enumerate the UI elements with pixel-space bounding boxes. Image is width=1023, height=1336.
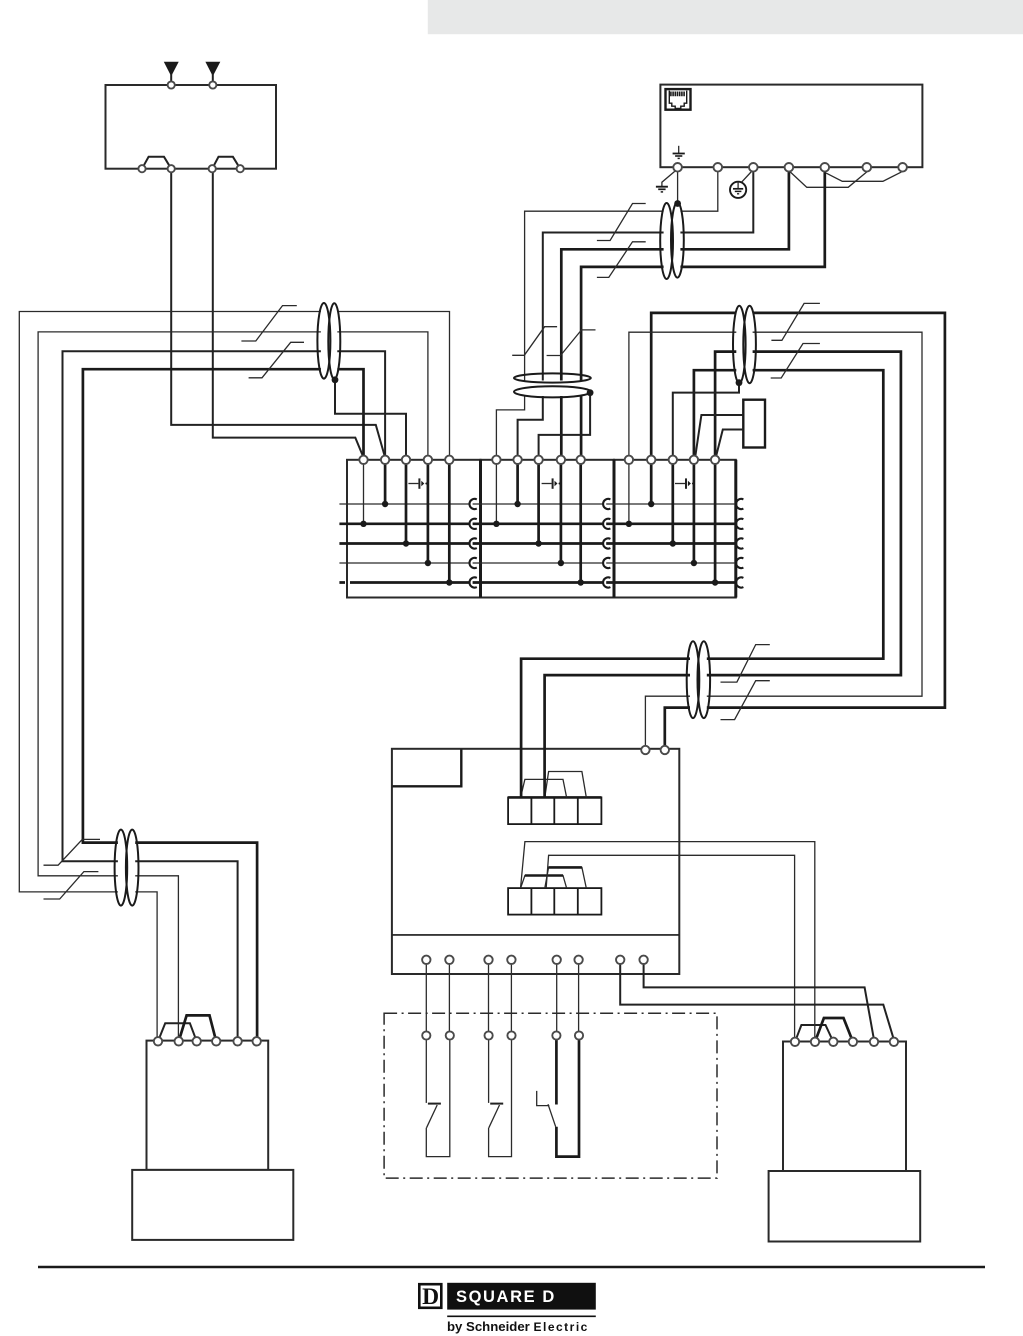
connector arcs box2 right edge [603,499,610,588]
wire controller t1 to shield bond dot [677,167,679,203]
wire right loop W1: module3 t2 to lower toroid H4 [651,313,945,747]
terminal strip divider [393,934,679,936]
shield count slash S11 [44,839,101,865]
wire central out7 to remote-right t6 [620,964,894,1040]
wire central out5 to switch3 [556,964,558,1032]
bus line L2 [339,522,735,525]
module3 terminals [625,456,633,464]
connector arcs box1 right edge [469,499,476,588]
ferrite bead FB3 (right middle) [733,306,756,383]
switch 1 [426,1040,450,1157]
wire left loop D: module1 t1 to remote-left t6 [83,369,364,1039]
svg-text:SQUARE D: SQUARE D [456,1288,556,1306]
shield count slash S12 [44,872,99,899]
jumper t1-t3 [795,1025,833,1042]
wire antenna box t3 to module1 t1 [213,169,364,458]
central box top terminals [641,746,649,754]
shield count slash S7 [771,303,820,340]
termination plug rectangle [743,400,765,448]
customer wiring terminals [422,1031,430,1039]
central box bottom terminals [422,956,430,964]
jumper link terminals 3-4 [212,157,240,169]
ground symbol inside box [673,146,685,159]
wire termination plug pin1 to module3 t4 [695,415,743,457]
earth symbol [656,186,668,188]
wire central out1 to switch1 [425,964,427,1032]
shield count slash S5 [512,327,557,356]
shield count slash S1 [241,306,296,341]
wire antenna box t2 to module1 t2 [171,169,385,458]
lower plug 1 [521,876,567,889]
wire controller t5 to module2 t5 [581,167,825,459]
dashed customer-wiring box [384,1013,717,1178]
wire shield bond V3 to module3 t3 [673,383,739,460]
bus line L4 [339,562,735,564]
wire central out2 to switch1 return [448,964,450,1032]
wire controller t2 to module2 t1 [496,167,717,459]
jumper t2-t4 (bold) [179,1015,217,1041]
antenna box top terminals [168,81,175,88]
wire termination plug pin2 to module3 t5 [716,430,743,458]
box1 electrode symbol [408,478,427,488]
ferrite bead FB1 (below controller) [660,202,684,279]
relay module box 1 [347,460,481,598]
remote-left terminals [154,1037,162,1045]
lower connector strip [508,867,601,914]
wire shield bond V2 to module1 t3 [335,380,406,459]
wire central out8 to remote-right t5 [644,964,874,1040]
module divider 1-2 [479,460,482,598]
box1 terminal drop wires [363,460,365,524]
wire right loop W4: module3 t4 to lower toroid H1 [521,370,883,797]
controller box (top right) [660,85,922,168]
box3 electrode symbol [675,478,694,488]
ferrite bead FB2 (left middle) [317,303,340,379]
wire central lower plug2 to remote-right t1 [546,855,794,1040]
footer rule [38,1266,985,1269]
node dots module3 buses [648,501,654,507]
node shield bond dot FB1 [674,200,681,207]
svg-text:D: D [422,1284,439,1310]
wire right loop W2: module3 t1 to lower toroid H3 [629,332,922,746]
display notch [393,750,462,787]
relay module box 2 [481,460,615,598]
wire central out3 to switch2 [488,964,490,1032]
antenna 1 [165,62,178,75]
ferrite bead FB6 (horizontal, above module2) [514,373,591,397]
box2 terminal drop wires [495,460,497,524]
box2 electrode symbol [542,478,561,488]
upper plug 1 [521,779,567,797]
antenna module box (top left) [106,62,277,169]
lower plug 2 [545,867,587,888]
wire left loop C: module1 t2 to remote-left t5 [63,351,386,1039]
node shield bond dot FB6 [587,389,594,396]
module divider 2-3 [613,460,616,598]
RJ45 jack icon [666,89,691,110]
wire right loop W3: module3 t5 to lower toroid H2 [545,352,901,798]
node dots module1 buses [382,501,388,507]
box3 terminal drop wires [628,460,630,524]
wire central out6 to switch3 return [578,964,580,1032]
controller terminals [673,163,682,172]
jumper t1-t3 [158,1023,197,1041]
wire left loop B: module1 t4 to remote-left t2 [38,332,428,1040]
earth lead from controller t3 to circled earth [730,172,752,198]
remote-right terminals [791,1038,799,1046]
bus line L3 [339,542,735,545]
shield count slash S9 [721,645,770,683]
Square D logo emblem [419,1284,441,1310]
node shield bond dot FB3 [736,379,743,386]
upper plug 2 [545,772,587,798]
right pedestal [769,1171,921,1242]
bus line L1 [339,503,735,505]
relay module box 3 [614,460,736,598]
remote device left [132,1015,293,1240]
module2 terminals [492,456,500,464]
shield count slash S3 [597,204,646,241]
svg-text:by Schneider Electric: by Schneider Electric [447,1319,589,1334]
controller jumper t4-t6 [790,172,867,187]
switch 2 [489,1040,512,1157]
left pedestal [132,1170,293,1240]
shield count slash S4 [597,242,646,278]
upper connector strip [508,772,601,825]
shield count slash S8 [771,344,820,379]
module1 terminals [359,456,367,464]
bus line L5 [339,581,735,584]
node shield bond dot FB2 [332,376,339,383]
circled earth symbol [730,182,746,198]
central controller box [392,749,679,974]
shield count slash S2 [249,342,304,378]
node dots module2 buses [514,501,520,507]
wire controller t3 to module2 t2 [518,167,754,459]
wire central lower plug1 to remote-right t2 [521,842,815,1040]
shield count slash S10 [721,681,770,720]
jumper link terminals 1-2 [142,157,171,169]
ferrite bead FB5 (bottom left) [115,830,139,906]
jumper t2-t4 (bold) [815,1018,853,1042]
module3 right edge [734,460,737,598]
wire controller t4 to module2 t4 [561,167,789,459]
controller jumper t5-t7 [826,172,901,181]
header gray bar [428,0,1023,34]
wire shield bond HT to module2 t3 [539,393,591,459]
shield count slash S6 [547,330,596,356]
ferrite bead FB4 (lower middle) [687,641,710,718]
wire central out4 to switch2 return [510,964,512,1032]
remote device right [769,1018,921,1242]
switch 3 (bold NC) [537,1040,579,1157]
earth lead from controller t1 [656,171,675,192]
connector arcs box3 right edge [736,499,743,588]
wire left loop A: module1 t5 to remote-left t1 [19,312,449,1040]
Square D logo wordmark [447,1283,596,1334]
antenna box bottom terminals [138,165,145,172]
antenna 2 [206,62,219,75]
